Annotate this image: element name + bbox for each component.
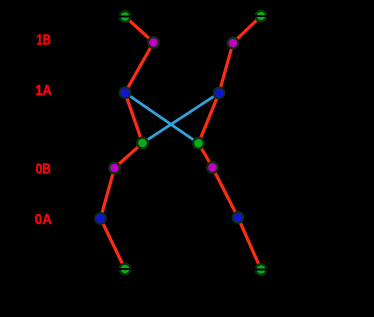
node magenta 0B left (109, 163, 120, 174)
wire blue cross right-top to left-mid (143, 93, 220, 143)
svg-text:1A: 1A (35, 83, 52, 99)
node green terminal bottom-right (254, 264, 268, 275)
node blue 0A right (233, 212, 244, 223)
node green terminal bottom-left (118, 264, 132, 275)
node green terminal top-left (118, 11, 132, 22)
node magenta 1B left (148, 37, 159, 48)
node blue 1A left (120, 87, 131, 98)
wire red right path (199, 16, 262, 270)
wire blue cross left-top to right-mid (125, 93, 199, 144)
svg-text:0A: 0A (35, 212, 53, 228)
node blue 0A left (95, 213, 106, 224)
node magenta 1B right (228, 38, 239, 49)
node blue 1A right (214, 88, 225, 99)
svg-text:1B: 1B (36, 33, 51, 49)
node magenta 0B right (207, 162, 218, 173)
svg-text:0B: 0B (36, 162, 51, 178)
node green mid right (193, 138, 204, 149)
node green terminal top-right (254, 11, 268, 22)
wire red left path (101, 17, 154, 270)
node green mid left (137, 138, 148, 149)
